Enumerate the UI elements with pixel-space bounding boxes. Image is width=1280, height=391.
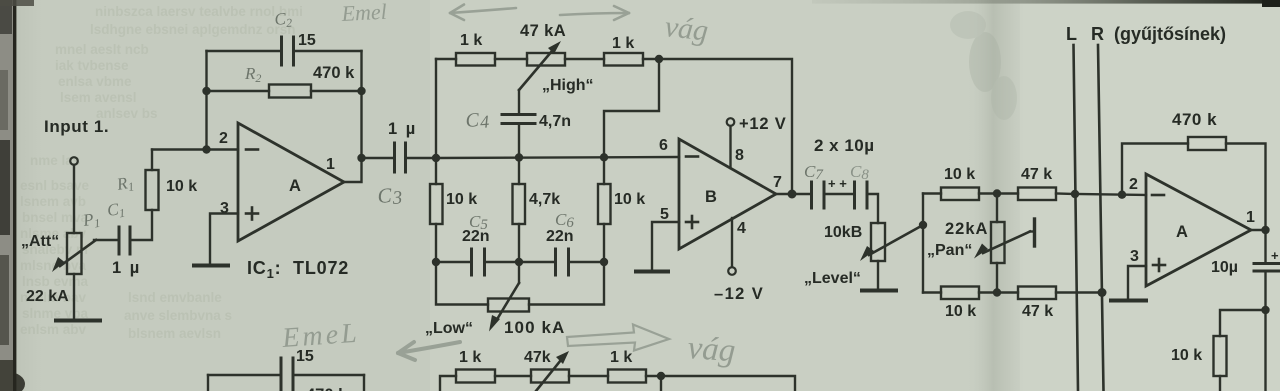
wire feedback left vertical xyxy=(205,51,207,150)
resistor R10 10k xyxy=(941,287,979,300)
wire node down xyxy=(660,376,662,391)
resistor R12 470k feedback xyxy=(1188,137,1226,150)
svg-text:6: 6 xyxy=(659,137,668,154)
resistor R7 10k shunt right xyxy=(598,184,611,224)
svg-text:1: 1 xyxy=(326,156,335,173)
svg-text:„Pan“: „Pan“ xyxy=(927,242,972,259)
pin 8 supply wire xyxy=(729,126,731,168)
bleed-through ghost text xyxy=(20,4,303,341)
svg-text:blsnem aevlsn: blsnem aevlsn xyxy=(128,326,221,341)
node pan pot bottom xyxy=(993,288,1001,296)
wire R1 to pin2 line xyxy=(151,150,153,171)
svg-text:4,7n: 4,7n xyxy=(539,113,571,130)
minus sign pin2 (U2A) xyxy=(1152,194,1164,197)
resistor R2 xyxy=(269,85,311,98)
resistor R4' 1k xyxy=(608,370,646,383)
wire to R8 xyxy=(923,192,941,194)
wire R7 bottom xyxy=(603,224,605,262)
node top row right xyxy=(655,55,663,63)
node tone network input xyxy=(432,154,440,162)
channel 2 wire to C2' xyxy=(208,374,279,376)
wire P2 wiper to C4 xyxy=(518,90,520,113)
svg-text:10 k: 10 k xyxy=(944,166,975,183)
wire C3 to tone network xyxy=(407,157,437,159)
wire L bus to op-amp pin 2 xyxy=(1075,194,1146,195)
wire C2' right xyxy=(294,374,364,376)
capacitor C1 xyxy=(118,227,121,254)
plus sign pin5 xyxy=(686,221,698,224)
R bus xyxy=(1098,45,1104,391)
svg-text:+: + xyxy=(1271,248,1279,263)
wire C9 down xyxy=(1264,272,1266,391)
svg-text:470 k: 470 k xyxy=(313,64,355,82)
wire node to R2 xyxy=(207,90,270,92)
wire to C6 xyxy=(519,261,554,263)
node bottom row left xyxy=(432,258,440,266)
svg-text:R: R xyxy=(1091,24,1104,44)
wire node to R11 xyxy=(997,291,1018,293)
wire P2' to R4' xyxy=(569,375,608,377)
scan edges xyxy=(0,0,13,391)
svg-text:EmeL: EmeL xyxy=(280,318,360,354)
wire to R3 xyxy=(436,58,456,60)
svg-text:„Low“: „Low“ xyxy=(425,320,473,337)
svg-text:4: 4 xyxy=(737,220,746,237)
svg-text:L: L xyxy=(1066,24,1077,44)
wire C2 to right vertical xyxy=(295,50,362,52)
wire wiper to C1 xyxy=(94,239,117,241)
wire main line to op-amp B pin6 xyxy=(436,157,679,158)
wire pin5 to ground xyxy=(652,222,679,270)
op-amp U1B (IC1) xyxy=(679,139,776,249)
svg-text:lsnem avb: lsnem avb xyxy=(20,194,86,209)
svg-text:mnel aeslt ncb: mnel aeslt ncb xyxy=(55,42,149,57)
svg-text:47 kA: 47 kA xyxy=(520,22,566,40)
wire P5 wiper to ground tick xyxy=(1030,230,1034,232)
input terminal J1 xyxy=(70,157,78,165)
ground (P1) xyxy=(56,319,100,323)
pencil arrow top left xyxy=(450,8,516,13)
pencil arrow bottom left xyxy=(398,342,460,360)
svg-text:anve slembvna s: anve slembvna s xyxy=(124,308,232,323)
svg-text:(gyűjtősínek): (gyűjtősínek) xyxy=(1114,24,1226,44)
pencil arrow top right xyxy=(560,13,629,15)
svg-text:1 k: 1 k xyxy=(610,349,632,366)
wire C5 to middle node xyxy=(486,261,520,263)
svg-text:Emel: Emel xyxy=(340,0,387,26)
channel 2 tone row left corner xyxy=(440,376,456,391)
svg-text:bnsel mva: bnsel mva xyxy=(22,210,89,225)
svg-text:B: B xyxy=(705,188,717,206)
wire C7 to C8 xyxy=(825,193,853,195)
wire R5 top xyxy=(435,158,437,184)
wire R7 top xyxy=(603,157,605,184)
svg-text:10 k: 10 k xyxy=(614,191,645,208)
svg-text:lsem avensl: lsem avensl xyxy=(60,90,137,105)
-12V terminal xyxy=(728,267,736,275)
node on R bus xyxy=(1098,288,1107,297)
wire C6 to right node xyxy=(570,261,605,263)
resistor R3 1k xyxy=(456,53,495,66)
wire R6 bottom xyxy=(518,224,520,262)
svg-text:470 k: 470 k xyxy=(1172,110,1217,129)
wire pin3 to ground xyxy=(210,214,238,265)
node output B xyxy=(788,190,797,199)
wire pin3 to ground xyxy=(1128,266,1146,299)
svg-text:22 kA: 22 kA xyxy=(26,288,69,305)
svg-text:A: A xyxy=(1176,223,1188,241)
svg-text:ninbszca laersv tealvbe rnol b: ninbszca laersv tealvbe rnol bmi xyxy=(95,4,303,19)
svg-text:esnl bsave: esnl bsave xyxy=(20,178,90,193)
resistor R13 10k xyxy=(1214,336,1227,376)
svg-text:22kA: 22kA xyxy=(945,220,988,238)
svg-text:lnsb evma: lnsb evma xyxy=(22,274,89,289)
wire feedback corner from top row xyxy=(604,59,659,157)
potentiometer P5 22kA Pan body xyxy=(991,222,1005,263)
wire C2' left vertical xyxy=(207,375,209,391)
wire pan input vertical xyxy=(922,194,924,293)
ground (pin5 U1B) xyxy=(636,270,668,274)
resistor R3' 1k xyxy=(456,370,495,383)
svg-text:+12 V: +12 V xyxy=(739,115,787,133)
svg-text:enlsa vbme: enlsa vbme xyxy=(58,74,132,89)
svg-text:IC1: TL072: IC1: TL072 xyxy=(247,258,349,281)
capacitor C3 xyxy=(393,143,396,172)
svg-text:vág: vág xyxy=(686,330,736,369)
svg-text:47 k: 47 k xyxy=(1021,166,1052,183)
minus sign pin6 xyxy=(686,155,698,158)
potentiometer P2' 47k body xyxy=(531,370,569,383)
wire node to R13 xyxy=(1220,310,1266,336)
potentiometer P4 10kB Level body xyxy=(871,223,885,261)
resistor R9 47k xyxy=(1018,188,1056,201)
svg-text:100 kA: 100 kA xyxy=(504,318,565,337)
wire R4' to node xyxy=(646,375,661,377)
svg-text:+ +: + + xyxy=(828,176,847,191)
svg-text:10 k: 10 k xyxy=(166,178,197,195)
wire low loop left xyxy=(436,262,488,305)
resistor R11 47k xyxy=(1018,287,1056,300)
wire P4 to ground xyxy=(877,261,879,289)
node junction feedback/pin2 xyxy=(202,145,210,153)
P1 wiper arrow xyxy=(60,240,96,266)
capacitor C7 xyxy=(810,182,813,208)
resistor R5 10k shunt left xyxy=(430,184,443,224)
svg-text:Input 1.: Input 1. xyxy=(44,117,109,136)
svg-text:lsdhgne ebsnei aplgemdnz orsn: lsdhgne ebsnei aplgemdnz orsn xyxy=(90,22,296,37)
wire R5 bottom xyxy=(435,224,437,262)
svg-text:7: 7 xyxy=(773,174,782,191)
wire R4 to node xyxy=(643,58,659,60)
svg-text:4,7k: 4,7k xyxy=(529,191,560,208)
svg-text:1 k: 1 k xyxy=(612,35,634,52)
wire R11 to R bus xyxy=(1056,291,1102,293)
wire R9 to L bus xyxy=(1056,192,1075,195)
svg-text:10 k: 10 k xyxy=(446,191,477,208)
wire feedback up xyxy=(1122,144,1188,195)
ground tick (P5 wiper) xyxy=(1033,219,1036,246)
wire R13 down xyxy=(1219,376,1221,391)
resistor R8 10k xyxy=(941,188,979,201)
node output A / C3 xyxy=(357,154,365,162)
potentiometer P3 100kA Low body xyxy=(488,299,529,312)
potentiometer P1 body xyxy=(67,233,82,274)
svg-text:3: 3 xyxy=(1130,248,1139,265)
wire C1 to R1 xyxy=(131,210,152,240)
pin 4 supply wire xyxy=(731,218,733,267)
svg-text:5: 5 xyxy=(660,206,669,223)
node feedback right xyxy=(357,87,365,95)
wire C2' right vertical xyxy=(363,375,365,391)
plus sign pin3 xyxy=(246,212,258,215)
node R2 branch left xyxy=(202,87,210,95)
svg-text:1 µ: 1 µ xyxy=(388,120,417,138)
wire node to R9 xyxy=(997,192,1018,194)
potentiometer P2 47kA High body xyxy=(527,53,565,66)
svg-text:1 k: 1 k xyxy=(460,32,482,49)
resistor R1 xyxy=(146,170,159,210)
L bus xyxy=(1074,45,1079,391)
svg-text:„High“: „High“ xyxy=(542,77,594,94)
node bottom row right xyxy=(600,258,608,266)
resistor R4 1k xyxy=(604,53,643,66)
capacitor C6 22n xyxy=(554,249,557,275)
svg-text:2: 2 xyxy=(219,130,228,147)
ground (P4) xyxy=(862,289,896,293)
svg-text:47k: 47k xyxy=(524,349,551,366)
wire to capacitor C2 xyxy=(207,50,281,52)
node main line right xyxy=(600,153,608,161)
wire pan bottom row left xyxy=(923,291,941,293)
svg-text:iak tvbense: iak tvbense xyxy=(55,58,129,73)
P5 wiper arrow xyxy=(983,232,1030,254)
node on L bus xyxy=(1071,190,1079,198)
wire feedback right vertical xyxy=(360,51,362,158)
svg-text:47 k: 47 k xyxy=(1022,303,1053,320)
wire U2A output xyxy=(1251,229,1266,231)
wire to capacitor C3 xyxy=(362,157,394,159)
wire output down to C9 xyxy=(1264,230,1266,262)
svg-text:„Att“: „Att“ xyxy=(21,233,59,250)
svg-text:470 k: 470 k xyxy=(306,386,348,391)
svg-text:enlsm abv: enlsm abv xyxy=(20,322,87,337)
svg-text:10kB: 10kB xyxy=(824,224,862,241)
capacitor C9 10µ xyxy=(1254,262,1279,265)
wire pot P1 to ground xyxy=(73,274,75,319)
svg-text:10 k: 10 k xyxy=(945,303,976,320)
svg-text:15: 15 xyxy=(298,32,316,49)
svg-text:vág: vág xyxy=(663,10,710,47)
wire R6 top xyxy=(518,158,520,185)
pencil arrow bottom right xyxy=(567,325,669,351)
svg-text:„Level“: „Level“ xyxy=(804,270,861,287)
capacitor C8 xyxy=(853,182,856,208)
capacitor C2 xyxy=(280,37,283,65)
node C4 on main line xyxy=(515,153,523,161)
svg-text:C4: C4 xyxy=(465,108,490,133)
svg-text:lsnd emvbanle: lsnd emvbanle xyxy=(128,290,222,305)
wire channel2 feedback right xyxy=(661,376,795,391)
ground (pin3 U1A) xyxy=(194,264,228,268)
node U2A output xyxy=(1261,226,1269,234)
minus sign pin2 xyxy=(246,148,258,151)
wire R3' to P2' xyxy=(495,375,531,377)
svg-text:A: A xyxy=(289,177,301,195)
svg-text:1: 1 xyxy=(1246,209,1255,226)
wire R10 to node xyxy=(979,291,997,293)
capacitor C5 22n xyxy=(470,249,473,275)
ground (pin3 U2A) xyxy=(1111,299,1146,303)
P2 wiper arrow xyxy=(519,51,552,90)
wire to C7 xyxy=(792,193,810,195)
capacitor C2' 15 xyxy=(280,358,283,391)
svg-text:10µ: 10µ xyxy=(1211,259,1238,276)
P3 wiper arrow xyxy=(518,262,520,283)
svg-text:1 k: 1 k xyxy=(459,349,481,366)
wire top row to op-amp B output xyxy=(659,59,792,194)
node channel2 top row xyxy=(657,372,665,380)
svg-text:2 x 10µ: 2 x 10µ xyxy=(814,136,875,155)
op-amp U2A summing xyxy=(1146,174,1251,286)
node R13 tap xyxy=(1261,306,1269,314)
svg-text:–12 V: –12 V xyxy=(714,285,764,303)
wire pan pot bottom xyxy=(996,263,998,293)
node pan pot top xyxy=(993,189,1001,197)
svg-text:1 µ: 1 µ xyxy=(112,259,141,277)
resistor R6 4,7k middle xyxy=(513,184,526,224)
node feedback tap xyxy=(1118,191,1126,199)
wire input to pot P1 xyxy=(73,165,75,233)
node P4 wiper / pan input xyxy=(919,221,927,229)
wire pan pot top xyxy=(996,194,998,223)
wire op-amp A output xyxy=(344,158,362,182)
wire C8 to P4 xyxy=(868,194,878,223)
wire op-amp B output xyxy=(776,193,792,195)
wire R12 to output xyxy=(1226,144,1266,231)
P2' wiper arrow xyxy=(536,360,561,391)
P4 wiper arrow xyxy=(869,225,923,255)
wire R8 to node xyxy=(979,192,997,194)
op-amp U1A (IC1) xyxy=(238,123,344,241)
svg-text:nme las: nme las xyxy=(30,153,80,168)
wire C4 to main line xyxy=(518,125,520,158)
svg-text:10 k: 10 k xyxy=(1171,347,1202,364)
+12V terminal xyxy=(727,118,735,126)
svg-text:8: 8 xyxy=(735,147,744,164)
wire R3 to P2 xyxy=(495,58,527,60)
wire R2 to right vertical xyxy=(311,90,362,92)
svg-text:2: 2 xyxy=(1129,176,1138,193)
wire to C5 xyxy=(436,261,470,263)
node bottom row middle xyxy=(515,258,523,266)
wire tone input up to top row xyxy=(435,59,437,158)
capacitor C4 4,7n xyxy=(502,113,535,116)
wire P2 to R4 xyxy=(565,58,604,60)
plus sign pin3 (U2A) xyxy=(1153,264,1165,267)
wire low loop right xyxy=(529,262,604,305)
wire node to op-amp A pin 2 xyxy=(152,148,238,150)
